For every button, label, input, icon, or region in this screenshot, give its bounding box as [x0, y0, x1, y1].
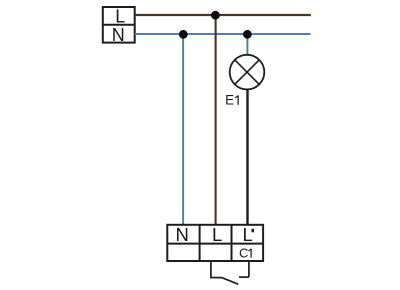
svg-text:L: L: [212, 224, 222, 245]
junction dot on N wire left: [179, 30, 188, 39]
svg-text:C: C: [239, 246, 248, 261]
svg-text:N: N: [176, 224, 189, 245]
wire N vertical to terminal N: [182, 34, 184, 225]
switch contact: [211, 261, 249, 284]
svg-text:L: L: [242, 224, 252, 245]
terminal label C1: [239, 246, 251, 261]
wire L horizontal (brown): [135, 14, 311, 16]
junction dot on N wire at lamp: [243, 30, 252, 39]
wire lamp E1 to terminal L': [246, 90, 248, 226]
terminal label L': [242, 224, 254, 245]
svg-text:N: N: [112, 25, 125, 45]
supply terminal box L/N: [103, 7, 135, 43]
terminal block: [167, 225, 263, 261]
label E1: [225, 93, 238, 108]
lamp E1: [230, 55, 265, 90]
wire N drop to lamp E1: [246, 34, 248, 55]
svg-text:L: L: [115, 6, 125, 26]
junction dot on L wire: [211, 11, 220, 20]
wire L vertical (brown) to terminal L: [215, 15, 217, 225]
wire N horizontal (blue): [135, 33, 311, 35]
svg-text:E: E: [225, 93, 234, 108]
